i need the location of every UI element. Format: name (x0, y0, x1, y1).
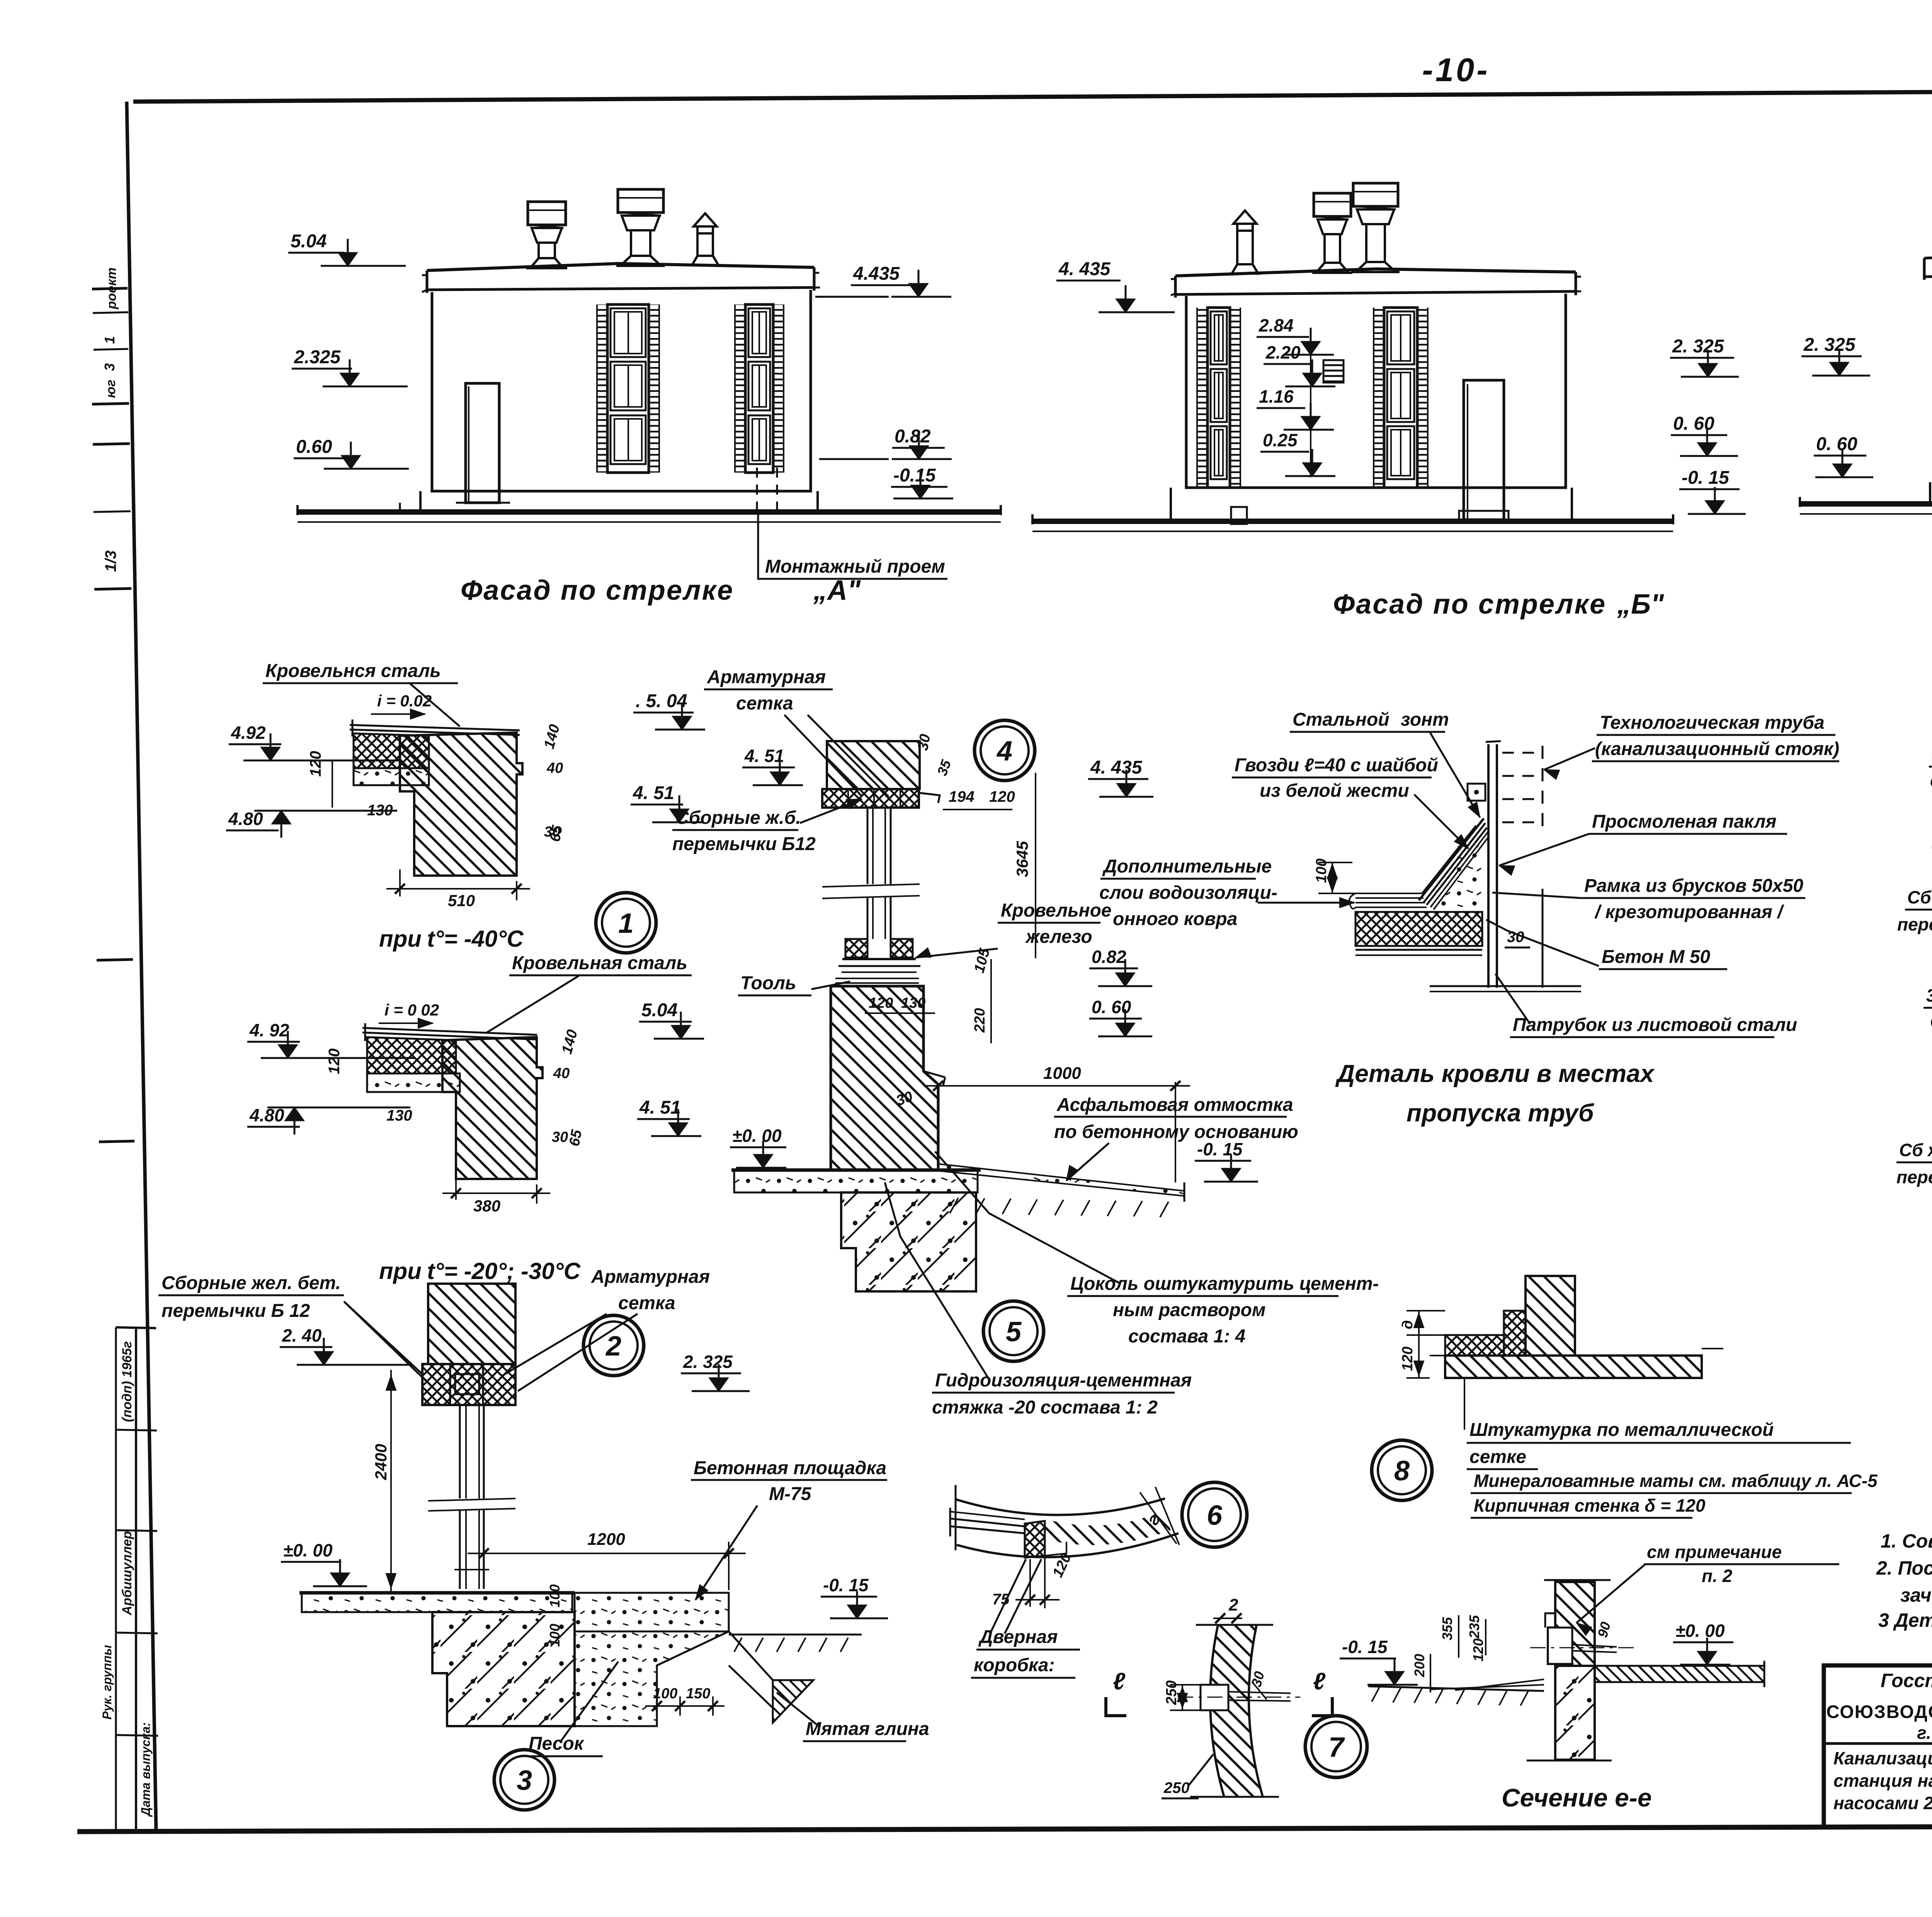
svg-text:2400: 2400 (372, 1444, 390, 1480)
svg-text:Технологическая труба: Технологическая труба (1600, 713, 1825, 733)
svg-text:±0. 00: ±0. 00 (283, 1540, 333, 1560)
svg-text:65: 65 (566, 1128, 585, 1148)
svg-text:4. 51: 4. 51 (633, 783, 674, 803)
svg-text:(канализационный стояк): (канализационный стояк) (1595, 739, 1839, 759)
svg-text:СОЮЗВОДОКАНАЛПРОЕКТ: СОЮЗВОДОКАНАЛПРОЕКТ (1826, 1701, 1932, 1722)
svg-text:пропуска труб: пропуска труб (1406, 1099, 1595, 1127)
svg-text:насосами 2½ НФ или: насосами 2½ НФ или (1833, 1793, 1932, 1813)
svg-text:Цоколь оштукатурить цемент-: Цоколь оштукатурить цемент- (1070, 1274, 1379, 1294)
svg-text:3645: 3645 (1013, 841, 1031, 877)
svg-text:3 Детали разработаны для с: 3 Детали разработаны для стен. толщиной … (1878, 1609, 1932, 1631)
svg-text:перемычки Б 12: перемычки Б 12 (162, 1301, 310, 1321)
svg-text:2. 40: 2. 40 (282, 1325, 322, 1345)
svg-text:250: 250 (1163, 1779, 1190, 1796)
svg-text:120: 120 (1400, 1347, 1416, 1371)
svg-text:4.80: 4.80 (228, 809, 263, 829)
svg-text:Кровельное: Кровельное (1001, 900, 1112, 921)
svg-text:4.92: 4.92 (231, 723, 266, 743)
svg-text:4: 4 (996, 736, 1012, 767)
svg-text:ℓ: ℓ (1313, 1668, 1326, 1695)
svg-text:235: 235 (1466, 1615, 1482, 1639)
svg-text:0. 60: 0. 60 (1673, 413, 1714, 434)
svg-text:0. 60: 0. 60 (1816, 434, 1857, 454)
svg-text:4. 51: 4. 51 (639, 1097, 681, 1118)
svg-text:„А": „А" (813, 575, 861, 606)
svg-text:стяжка -20 состава 1: 2: стяжка -20 состава 1: 2 (932, 1397, 1158, 1418)
svg-text:ным раствором: ным раствором (1113, 1300, 1265, 1320)
svg-text:Сборные жел. бет.: Сборные жел. бет. (162, 1273, 341, 1293)
svg-text:Мятая глина: Мятая глина (806, 1719, 929, 1739)
svg-text:из белой жести: из белой жести (1260, 781, 1409, 801)
svg-text:перемычки Б12: перемычки Б12 (672, 834, 816, 854)
svg-text:Фасад по стрелке: Фасад по стрелке (1333, 589, 1606, 620)
svg-text:Канализационная насосная: Канализационная насосная (1833, 1748, 1932, 1768)
svg-text:1/3: 1/3 (102, 550, 119, 572)
svg-text:-0. 15: -0. 15 (1682, 468, 1730, 488)
svg-text:2.20: 2.20 (1265, 342, 1301, 362)
svg-text:. 5. 04: . 5. 04 (636, 691, 687, 711)
svg-text:Просмоленая пакля: Просмоленая пакля (1592, 811, 1777, 832)
svg-text:Сб жел. бет.: Сб жел. бет. (1907, 887, 1932, 907)
svg-text:сетка: сетка (736, 693, 793, 714)
svg-text:4. 92: 4. 92 (249, 1020, 289, 1040)
svg-text:г. Москва: г. Москва (1917, 1723, 1932, 1743)
svg-text:по бетонному основанию: по бетонному основанию (1054, 1122, 1298, 1142)
svg-text:станция на 2 агрегата с: станция на 2 агрегата с (1833, 1771, 1932, 1791)
svg-text:Деталь кровли в местах: Деталь кровли в местах (1335, 1060, 1655, 1087)
svg-text:1. Совместно с данным см лис: 1. Совместно с данным см листы АС - 6 о … (1881, 1530, 1932, 1552)
svg-text:±0. 00: ±0. 00 (1675, 1621, 1725, 1641)
svg-text:онного ковра: онного ковра (1113, 909, 1237, 929)
svg-text:Кровельнся сталь: Кровельнся сталь (265, 661, 441, 681)
svg-text:120: 120 (869, 995, 893, 1011)
svg-text:Кровельная сталь: Кровельная сталь (512, 953, 687, 973)
svg-text:д: д (1400, 1320, 1416, 1330)
svg-text:i = 0 02: i = 0 02 (384, 1001, 439, 1019)
svg-text:Сечение е-е: Сечение е-е (1502, 1783, 1652, 1812)
svg-text:1.16: 1.16 (1259, 386, 1294, 407)
svg-text:Гвозди ℓ=40 с шайбой: Гвозди ℓ=40 с шайбой (1235, 755, 1438, 776)
svg-text:2.325: 2.325 (294, 347, 341, 367)
svg-text:Рамка из брусков 50x50: Рамка из брусков 50x50 (1584, 876, 1803, 896)
svg-text:С = 1800: С = 1800 (1930, 1012, 1932, 1032)
svg-text:40: 40 (553, 1065, 570, 1082)
svg-text:4. 51: 4. 51 (744, 746, 784, 766)
svg-text:Штукатурка по металлической: Штукатурка по металлической (1469, 1420, 1774, 1440)
svg-text:0.82: 0.82 (1092, 947, 1126, 967)
svg-text:1200: 1200 (587, 1530, 625, 1549)
svg-text:Госстрой СССР: Госстрой СССР (1881, 1670, 1932, 1691)
svg-text:„Б": „Б" (1617, 589, 1664, 620)
svg-text:130: 130 (386, 1107, 412, 1124)
svg-text:120: 120 (989, 788, 1015, 805)
svg-text:сетка: сетка (618, 1293, 675, 1313)
svg-text:коробка:: коробка: (974, 1655, 1055, 1675)
svg-text:200: 200 (1412, 1654, 1427, 1677)
svg-text:зачеканить паклей и заштука: зачеканить паклей и заштукатурить. (1900, 1584, 1932, 1606)
svg-text:Сб жел. бет: Сб жел. бет (1899, 1140, 1932, 1160)
svg-text:130: 130 (367, 802, 393, 819)
svg-text:0.60: 0.60 (296, 437, 332, 457)
svg-text:7: 7 (1328, 1732, 1345, 1763)
svg-text:5.04: 5.04 (641, 1000, 677, 1021)
svg-text:Бетонная площадка: Бетонная площадка (694, 1458, 886, 1478)
svg-text:Гидроизоляция-цементная: Гидроизоляция-цементная (935, 1370, 1192, 1391)
svg-text:-0. 15: -0. 15 (1342, 1637, 1388, 1657)
svg-text:Сборные ж.б.: Сборные ж.б. (675, 808, 801, 828)
svg-text:1: 1 (102, 336, 117, 344)
svg-text:роект: роект (104, 267, 119, 310)
svg-text:2. 325: 2. 325 (683, 1352, 733, 1372)
svg-text:0.82: 0.82 (895, 426, 931, 447)
svg-text:сетке: сетке (1469, 1447, 1526, 1467)
svg-text:0.25: 0.25 (1263, 430, 1298, 450)
svg-text:Монтажный проем: Монтажный проем (765, 556, 945, 577)
svg-text:4. 435: 4. 435 (1090, 757, 1143, 778)
svg-text:±0. 00: ±0. 00 (732, 1126, 782, 1146)
svg-text:120: 120 (326, 1048, 343, 1074)
svg-text:М-75: М-75 (769, 1484, 812, 1504)
svg-text:6: 6 (1207, 1500, 1223, 1531)
svg-text:Стальной: Стальной (1293, 709, 1389, 730)
svg-text:2.84: 2.84 (1259, 315, 1294, 335)
svg-text:2. 325: 2. 325 (1803, 335, 1856, 355)
svg-text:150: 150 (686, 1686, 710, 1702)
svg-text:-0. 15: -0. 15 (823, 1575, 869, 1595)
svg-text:t°= -20°; -30°C: t°= -20°; -30°C (427, 1258, 581, 1284)
svg-text:перемычки БУ 20: перемычки БУ 20 (1897, 914, 1932, 934)
svg-text:п. 2: п. 2 (1702, 1566, 1733, 1586)
svg-text:2. После пропуска трубы п: 2. После пропуска трубы поливочного кран… (1876, 1557, 1932, 1579)
svg-text:Арматурная: Арматурная (591, 1267, 710, 1287)
svg-text:i = 0.02: i = 0.02 (377, 692, 432, 710)
svg-text:120: 120 (1470, 1638, 1486, 1662)
svg-text:Тооль: Тооль (740, 973, 796, 993)
svg-text:1: 1 (618, 908, 634, 939)
svg-text:Дополнительные: Дополнительные (1102, 856, 1272, 877)
svg-text:120: 120 (307, 751, 324, 777)
svg-text:Дата выпуска:: Дата выпуска: (139, 1722, 153, 1817)
svg-text:355: 355 (1439, 1617, 1455, 1640)
svg-text:Арматурная: Арматурная (707, 667, 826, 687)
svg-text:при: при (379, 1258, 422, 1284)
svg-text:/ крезотированная /: / крезотированная / (1594, 902, 1784, 922)
svg-text:ℓ: ℓ (1113, 1668, 1126, 1695)
svg-text:130: 130 (901, 995, 925, 1011)
svg-text:5: 5 (1006, 1317, 1022, 1347)
svg-text:1000: 1000 (1043, 1064, 1081, 1083)
svg-text:510: 510 (448, 891, 475, 910)
svg-text:см примечание: см примечание (1647, 1542, 1782, 1562)
svg-text:перемычки Б 12: перемычки Б 12 (1896, 1167, 1932, 1187)
svg-text:состава 1: 4: состава 1: 4 (1128, 1326, 1245, 1347)
svg-text:при: при (379, 926, 422, 952)
svg-text:-10-: -10- (1422, 52, 1490, 88)
svg-text:е = 2200: е = 2200 (1930, 771, 1932, 791)
svg-text:юг: юг (104, 379, 118, 398)
svg-text:65: 65 (547, 824, 566, 843)
svg-text:Минераловатные маты см. та: Минераловатные маты см. таблицу л. АС-5 (1474, 1471, 1878, 1491)
svg-text:100: 100 (547, 1584, 563, 1607)
svg-text:Рук. группы: Рук. группы (100, 1645, 114, 1720)
svg-text:Асфальтовая отмостка: Асфальтовая отмостка (1056, 1095, 1293, 1115)
svg-text:3: 3 (102, 363, 117, 371)
svg-text:30: 30 (552, 1129, 568, 1145)
svg-text:8: 8 (1394, 1456, 1410, 1487)
svg-text:5.04: 5.04 (291, 231, 327, 252)
svg-text:2: 2 (1228, 1596, 1238, 1614)
svg-text:4. 435: 4. 435 (1058, 259, 1111, 279)
svg-text:40: 40 (546, 760, 563, 776)
svg-text:Фасад по стрелке: Фасад по стрелке (461, 575, 734, 606)
svg-text:194: 194 (949, 788, 975, 805)
svg-text:Арбишуллер: Арбишуллер (120, 1531, 134, 1616)
svg-text:220: 220 (972, 1008, 988, 1033)
svg-text:3Ф6 АI: 3Ф6 АI (1926, 985, 1932, 1005)
svg-text:2. 325: 2. 325 (1672, 336, 1725, 357)
svg-text:Бетон М 50: Бетон М 50 (1602, 947, 1710, 967)
svg-text:100: 100 (653, 1686, 677, 1702)
svg-text:3: 3 (517, 1765, 532, 1796)
svg-text:Патрубок из листовой стали: Патрубок из листовой стали (1513, 1015, 1797, 1035)
svg-text:Кирпичная стенка δ = 120: Кирпичная стенка δ = 120 (1474, 1495, 1706, 1516)
svg-text:30: 30 (915, 733, 934, 752)
svg-text:t°= -40°C: t°= -40°C (427, 926, 524, 952)
svg-text:зонт: зонт (1401, 709, 1449, 730)
svg-text:2: 2 (605, 1331, 621, 1362)
svg-text:380: 380 (473, 1197, 500, 1215)
svg-text:слои водоизоляци-: слои водоизоляци- (1099, 883, 1277, 903)
svg-text:4.435: 4.435 (853, 264, 900, 284)
svg-text:(подп) 1965г: (подп) 1965г (120, 1341, 134, 1422)
svg-text:-0.15: -0.15 (893, 465, 936, 486)
svg-text:Дверная: Дверная (978, 1627, 1058, 1647)
svg-text:100: 100 (547, 1624, 563, 1647)
